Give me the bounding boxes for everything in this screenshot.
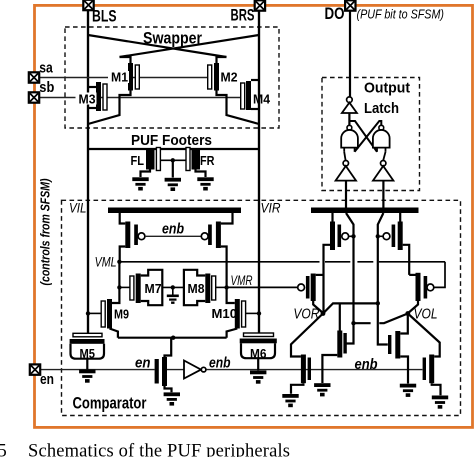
svg-text:Swapper: Swapper — [143, 29, 202, 48]
svg-text:enb: enb — [162, 220, 184, 237]
wire VMR horizontal net — [227, 286, 298, 288]
svg-text:VML: VML — [95, 253, 117, 269]
svg-text:5: 5 — [0, 441, 7, 457]
wire swapper cross diagonal from BLS to M2 drain — [88, 35, 227, 57]
ground mid-left — [314, 383, 330, 396]
pad BRS — [255, 0, 265, 10]
svg-text:Schematics of the PUF peripher: Schematics of the PUF peripherals — [28, 441, 290, 457]
ground footer right — [197, 177, 213, 190]
swapper dashed box — [65, 27, 279, 128]
svg-text:M8: M8 — [188, 281, 205, 296]
label M3 — [76, 92, 97, 107]
node footer mid junction — [171, 158, 175, 162]
svg-text:enb: enb — [355, 356, 378, 373]
comparator dashed box — [62, 200, 461, 415]
node left latch line gate tap — [351, 234, 355, 238]
capacitor M8 mos cap — [184, 270, 216, 305]
inverter latch bottom left — [336, 152, 356, 181]
svg-text:M10: M10 — [212, 306, 238, 321]
svg-text:Latch: Latch — [364, 100, 399, 117]
wire mid cap ground stem — [172, 287, 174, 294]
wire footer mid ground stem — [172, 160, 174, 177]
svg-text:(PUF bit to SFSM): (PUF bit to SFSM) — [357, 6, 445, 21]
svg-text:M6: M6 — [250, 346, 267, 361]
svg-text:VOL: VOL — [414, 306, 438, 323]
transistor M4 — [241, 80, 259, 110]
nand right — [373, 125, 390, 152]
svg-text:(controls from SFSM): (controls from SFSM) — [38, 179, 53, 286]
node M7 M8 mid junction — [171, 285, 175, 289]
ground M5 — [79, 370, 95, 383]
pad sa — [29, 72, 39, 82]
svg-text:sa: sa — [39, 60, 53, 77]
svg-text:BRS: BRS — [231, 5, 255, 24]
transistor M10 — [227, 287, 259, 337]
wire left latch line from output latch — [346, 181, 354, 344]
wire VOR diagonal to outer-left nmos — [291, 314, 323, 357]
svg-text:VMR: VMR — [231, 272, 253, 288]
transistor M2 — [208, 57, 259, 124]
node M10 gate tap on VIR rail — [257, 311, 261, 315]
svg-text:VIL: VIL — [69, 200, 87, 216]
wire footer gate link — [160, 159, 186, 161]
ground outer-left — [282, 394, 298, 407]
svg-text:PUF Footers: PUF Footers — [131, 132, 212, 149]
wire VOL drain column to mid-right nmos — [400, 314, 408, 334]
node VMR — [224, 285, 228, 289]
transistor output left top pmos — [324, 213, 352, 314]
nand left — [341, 125, 358, 152]
svg-text:M7: M7 — [145, 281, 162, 296]
capacitor M7 mos cap — [130, 270, 162, 305]
svg-text:DO: DO — [325, 4, 345, 23]
transistor right precharge pmos — [201, 213, 232, 287]
wire DO line — [349, 11, 351, 98]
wire VOL diagonal to outer-right nmos — [408, 314, 440, 357]
wire BRS rail — [258, 11, 260, 334]
wire M7 gate line — [119, 286, 129, 288]
svg-text:VIR: VIR — [261, 200, 281, 216]
wire PUF footer top rail — [88, 148, 259, 150]
svg-text:FR: FR — [200, 153, 215, 168]
transistor enb outer-right nmos — [423, 355, 441, 396]
pad en — [30, 364, 40, 374]
transistor cross-coupled mid-left nmos — [322, 303, 346, 383]
svg-text:M5: M5 — [80, 346, 96, 361]
ground outer-right — [432, 396, 448, 409]
ground footer mid — [165, 178, 181, 191]
inverter DO output — [342, 97, 357, 125]
ground tail — [164, 392, 180, 405]
inverter latch bottom right — [373, 152, 393, 181]
svg-text:M9: M9 — [114, 307, 129, 322]
wire sb gate line — [40, 97, 241, 99]
node VML — [117, 260, 121, 264]
transistor VML-driven left mid pmos — [298, 274, 324, 314]
capacitor M5 mos cap — [70, 333, 105, 369]
node right latch line VOR-link tap — [376, 301, 380, 305]
node VOL — [405, 311, 410, 316]
transistor cross-coupled mid-right nmos — [388, 331, 408, 384]
svg-text:M2: M2 — [221, 70, 238, 85]
wire VOR to right latch line — [323, 303, 378, 313]
node right latch line gate tap — [376, 234, 380, 238]
transistor left precharge pmos — [120, 213, 145, 262]
wire nand cross-coupling — [349, 121, 381, 152]
pad DO — [345, 0, 355, 10]
svg-text:sb: sb — [39, 79, 54, 96]
svg-text:M1: M1 — [111, 70, 128, 85]
svg-text:FL: FL — [131, 153, 145, 168]
transistor en tail nmos — [155, 338, 172, 393]
svg-text:Comparator: Comparator — [73, 394, 147, 413]
transistor M1 — [88, 57, 139, 124]
node VOR — [321, 311, 326, 316]
svg-text:M4: M4 — [253, 92, 271, 107]
ground mid-right — [400, 384, 416, 397]
node M9 gate tap on VIL rail — [86, 311, 90, 315]
wire sa gate line — [40, 77, 208, 79]
ground mid cap — [167, 295, 179, 304]
transistor enb outer-left nmos — [291, 355, 311, 394]
ground footer left — [132, 177, 148, 190]
svg-text:enb: enb — [209, 355, 231, 372]
capacitor M6 mos cap — [240, 333, 277, 370]
comparator top plate bar — [108, 208, 241, 214]
svg-text:BLS: BLS — [92, 6, 117, 25]
wire M8 gate line — [216, 286, 227, 288]
output latch dashed box — [322, 78, 420, 191]
svg-text:M3: M3 — [79, 92, 96, 107]
label M1 — [108, 70, 129, 85]
wire en control line — [40, 369, 155, 371]
wire VOL to left latch line — [354, 314, 408, 324]
transistor FL — [141, 148, 161, 178]
wire VML horizontal net — [119, 262, 445, 288]
wire M7 M8 shorted node link — [162, 286, 184, 288]
wire enb control line — [207, 369, 423, 371]
wire right latch line from output latch — [378, 181, 388, 345]
svg-text:en: en — [40, 371, 54, 388]
ground M6 — [250, 371, 266, 384]
wire VML vertical column — [112, 262, 119, 303]
node tail junction — [171, 336, 175, 340]
svg-text:Output: Output — [364, 79, 410, 96]
wire comparator tail line — [118, 337, 227, 339]
pad sb — [29, 92, 39, 102]
wire BLS rail — [87, 10, 89, 333]
node left latch line VOL-link tap — [351, 321, 355, 325]
wire enb link between precharge gates — [145, 235, 201, 237]
pad BLS — [83, 0, 93, 10]
transistor output right top pmos — [380, 213, 409, 275]
transistor M3 — [88, 82, 107, 111]
wire swapper cross diagonal from BRS to M1 drain — [120, 35, 260, 57]
wire en to inverter — [167, 369, 184, 371]
inverter enb generator — [184, 361, 206, 379]
svg-text:en: en — [135, 355, 151, 372]
transistor FR — [186, 148, 206, 178]
output stage supply bar — [311, 208, 419, 214]
transistor M9 — [88, 299, 118, 338]
node VML M7 gate tap — [117, 285, 121, 289]
transistor VMR-driven right mid pmos — [408, 273, 434, 313]
